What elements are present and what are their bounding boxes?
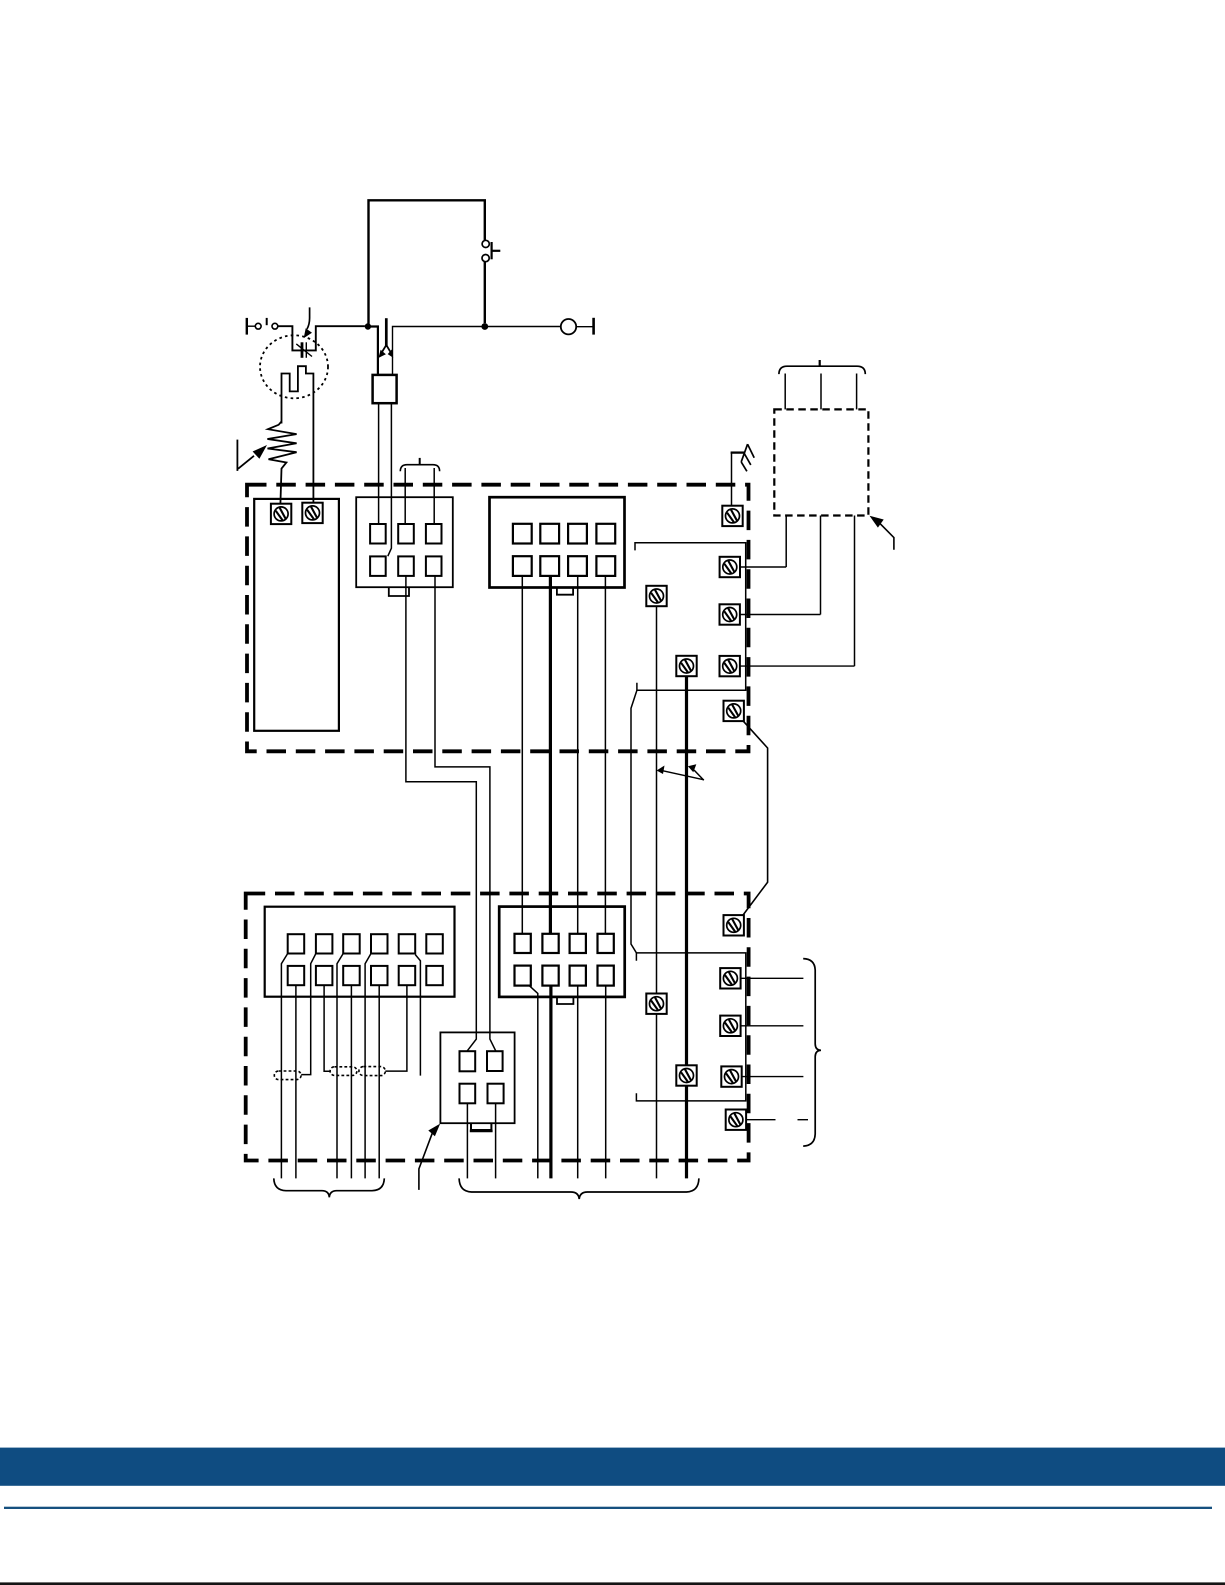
wire — [388, 403, 392, 556]
wire — [736, 713, 767, 919]
wire — [856, 374, 858, 410]
screw terminal thermostat 2 — [302, 503, 322, 523]
screw terminal SR2 — [720, 1016, 740, 1036]
footer blue bar — [0, 1448, 1225, 1486]
wire — [433, 468, 435, 524]
screw terminal ground — [722, 506, 742, 526]
wire — [740, 977, 803, 979]
wire — [605, 985, 607, 1178]
wire — [247, 325, 256, 327]
wire — [529, 985, 538, 1178]
footer rule — [4, 1507, 1212, 1509]
wire — [521, 576, 523, 934]
wire — [656, 606, 658, 1178]
igniter arrow — [304, 307, 312, 338]
switch button contacts — [482, 240, 500, 261]
screw terminal S2 — [720, 557, 740, 577]
wire pocket — [278, 326, 365, 350]
wire — [740, 665, 855, 667]
4-pin connector — [440, 1032, 514, 1123]
wire — [740, 614, 821, 616]
screw terminal S8 — [724, 915, 744, 935]
screw terminal S5 — [646, 586, 666, 606]
screw terminal thermostat 1 — [271, 504, 291, 524]
wire — [820, 516, 822, 615]
8-pin-2 pins — [515, 934, 614, 986]
wire — [740, 566, 786, 568]
screw terminal SR3 — [721, 1066, 741, 1086]
8-pin pins — [513, 524, 615, 576]
wire — [631, 690, 637, 953]
vent damper brace — [779, 360, 865, 374]
lamp — [561, 318, 594, 335]
ignition cable center lead — [378, 318, 393, 358]
8-pin connector 2 — [499, 907, 625, 997]
double arrow pointer — [657, 764, 704, 780]
harness bracket box1 — [635, 543, 746, 691]
terminal bar left — [246, 318, 248, 335]
wire — [466, 1103, 468, 1178]
harness bracket box2 — [636, 953, 745, 1101]
wire top loop — [369, 200, 485, 326]
wire — [740, 1025, 803, 1027]
screw terminal SR1 — [720, 968, 740, 988]
wire — [785, 516, 787, 568]
wire — [365, 954, 371, 1179]
splice 1 — [274, 1071, 301, 1080]
12-pin connector — [265, 907, 455, 997]
wire A — [406, 576, 476, 1051]
wire — [798, 1119, 809, 1121]
wire — [577, 985, 579, 1178]
screw terminal S4 — [720, 656, 740, 676]
wire — [385, 985, 407, 1071]
footer bottom line — [0, 1582, 1225, 1585]
wire — [415, 955, 420, 1076]
plug brace — [400, 458, 439, 471]
brace bottom left — [274, 1178, 385, 1197]
8-pin-2 tab — [557, 997, 573, 1004]
adjust arrow — [237, 440, 267, 471]
flame sensor symbol — [296, 342, 312, 358]
screw terminal SA — [646, 994, 666, 1014]
node junction right — [481, 323, 488, 330]
wire — [295, 985, 297, 1178]
vent damper dashed box — [774, 409, 868, 515]
wire — [378, 985, 380, 1178]
wire — [393, 327, 561, 375]
relay module box — [254, 499, 339, 731]
wire — [742, 1076, 804, 1078]
node junction left — [365, 323, 371, 329]
wire — [378, 403, 380, 524]
wire — [495, 1103, 497, 1178]
wire — [281, 954, 287, 1179]
wire thick — [549, 985, 552, 1178]
screw terminal S6 — [676, 656, 696, 676]
resistor anticipator — [267, 422, 296, 505]
splice 3 — [359, 1067, 386, 1076]
big brace right — [803, 959, 821, 1147]
8-pin connector — [490, 497, 625, 587]
wire — [820, 374, 822, 410]
6-pin tab — [389, 587, 409, 596]
wire — [337, 954, 343, 1179]
wire thick — [549, 576, 552, 934]
wire — [577, 576, 579, 934]
callout arrow vent — [870, 516, 894, 550]
wire — [368, 327, 378, 375]
4-pin tab — [470, 1123, 493, 1131]
callout arrow 4-pin — [419, 1124, 440, 1190]
wire — [324, 985, 330, 1071]
switch contacts left — [255, 318, 277, 329]
control box 2 dashed border — [246, 894, 749, 1161]
wire — [746, 1119, 776, 1121]
6-pin pins — [370, 524, 441, 576]
screw terminal S7 — [724, 701, 744, 721]
wire — [404, 468, 406, 524]
screw terminal SB — [676, 1065, 696, 1085]
pilot burner outline — [282, 366, 314, 503]
wire — [854, 516, 856, 667]
wire thick — [685, 676, 688, 1178]
wire B — [435, 576, 496, 1051]
control box 1 dashed border — [247, 485, 749, 752]
wire — [301, 954, 316, 1075]
screw terminal S3 — [720, 604, 740, 624]
6-pin connector — [356, 497, 453, 587]
ground symbol — [731, 444, 755, 506]
pilot dashed circle — [260, 335, 328, 398]
wire — [604, 576, 606, 934]
splice 2 — [330, 1067, 357, 1076]
brace bottom right — [459, 1178, 699, 1199]
4-pin pins — [460, 1051, 504, 1103]
screw terminal SR4 — [726, 1110, 746, 1130]
wire — [350, 985, 352, 1178]
cable boot — [373, 375, 397, 403]
wire — [484, 262, 486, 324]
12-pin pins — [288, 934, 443, 985]
wire — [784, 374, 786, 410]
8-pin tab — [557, 588, 573, 595]
